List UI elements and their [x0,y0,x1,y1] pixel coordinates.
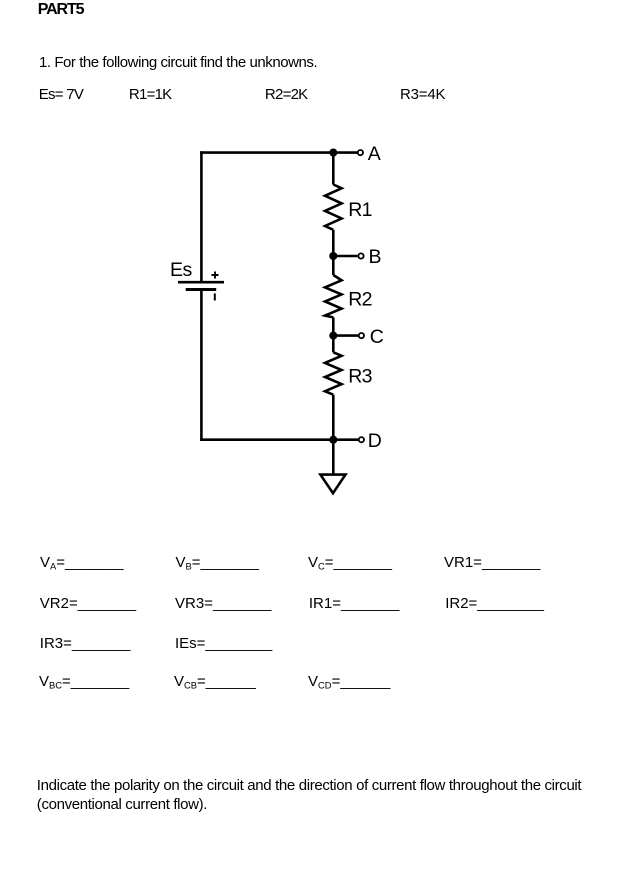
terminal A (open circle) [358,150,363,155]
node A junction dot [329,149,337,157]
wire: left branch lower (battery bottom plate down to bottom wire) [200,290,203,442]
wire: stub from node A to terminal A [333,151,357,154]
wire: node C down to resistor R3 [332,336,335,353]
parameter Es value [39,87,83,102]
node B junction dot [329,252,337,260]
title PART5 [38,2,84,18]
wire: stub from node C to terminal C [333,334,358,337]
blank IR1 [309,596,400,611]
svg-text:R3: R3 [348,366,371,388]
wire: node A down to resistor R1 [332,153,335,185]
parameter R1 value [129,87,172,102]
battery Es: bottom plate (short, negative) [186,288,217,291]
node C junction dot [329,332,337,340]
blank V_A [40,555,123,570]
wire: resistor R1 to node B [332,230,335,256]
wire: stub from node D to terminal D [333,438,358,441]
problem statement line [39,55,317,70]
blank V_BC [39,674,129,689]
resistor R1 (zigzag) [325,185,342,230]
resistor R3 (zigzag) [325,352,342,394]
parameter R2 value [265,87,308,102]
instruction paragraph line 1 [37,778,581,793]
svg-text:B: B [369,246,382,268]
blank VR2 [40,596,136,611]
wire: resistor R3 to node D [332,395,335,440]
instruction paragraph line 2 [37,797,207,812]
blank V_B [176,555,259,570]
svg-text:R2: R2 [348,288,371,310]
svg-text:Es: Es [170,259,193,281]
blank IR3 [40,636,131,651]
svg-text:A: A [368,143,381,165]
parameter R3 value [400,87,445,102]
blank V_CD [308,674,390,689]
blank IR2 [445,596,544,611]
node D junction dot [329,436,337,444]
svg-text:C: C [370,326,384,348]
resistor R2 (zigzag) [325,275,342,317]
terminal C (open circle) [359,333,364,338]
wire: ground stem from node D [332,440,335,475]
blank VR1 [444,555,540,570]
svg-text:D: D [368,430,382,452]
wire: bottom segment from left branch to node D [200,438,333,441]
blank V_C [308,555,392,570]
ground symbol (open triangle) [320,475,345,494]
svg-text:R1: R1 [348,199,371,221]
battery minus polarity mark [214,293,216,300]
wire: resistor R2 to node C [332,317,335,335]
wire: stub from node B to terminal B [333,255,357,258]
blank IEs [175,636,272,651]
terminal D (open circle) [359,437,364,442]
terminal B (open circle) [358,253,363,258]
blank VR3 [175,596,271,611]
battery Es: top plate (long, positive) [178,281,224,284]
battery plus polarity mark [212,272,219,279]
wire: node B down to resistor R2 [332,256,335,275]
blank V_CB [174,674,256,689]
wire: top segment from left branch to node A [200,151,333,154]
wire: left branch upper (top wire down to battery top plate) [200,151,203,281]
